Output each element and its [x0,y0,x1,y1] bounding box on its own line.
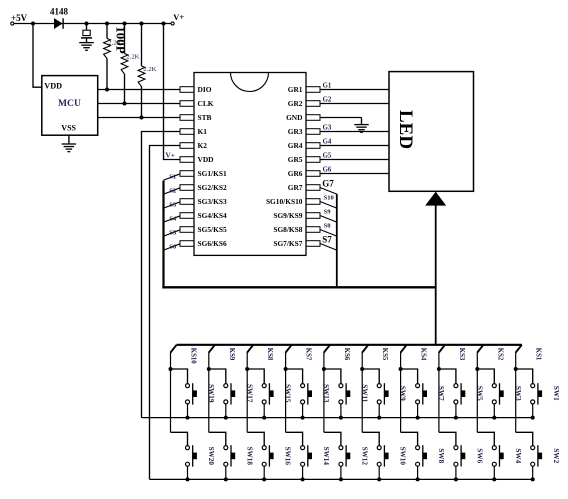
junction dot KS2 [475,367,479,371]
label net KS1 [535,348,542,361]
label net KS6 [343,348,350,361]
pin U1 left CLK [180,99,214,108]
svg-text:G6: G6 [323,166,332,173]
switch SW14 [286,432,312,479]
ground at U1 GND [354,125,369,133]
label net S4 [169,215,177,222]
junction dot R2 tap [123,22,127,26]
junction dot SW4 row2 [492,477,496,481]
svg-text:SW18: SW18 [245,447,253,466]
wire KS8 bus tap [247,345,253,369]
wire slant S7 [320,244,337,251]
wire slant S6 [164,244,181,250]
svg-text:S3: S3 [169,201,177,208]
svg-text:SG8/KS8: SG8/KS8 [273,225,302,234]
wire +5V down to MCU VDD [33,24,42,88]
node V+ terminal [171,13,184,25]
label MCU VDD pin [44,82,62,91]
svg-text:GR5: GR5 [288,155,303,164]
svg-text:KS4: KS4 [420,348,427,361]
label 100P (C1 value) [113,26,128,54]
svg-text:KS3: KS3 [458,348,465,361]
arrow into LED [425,192,446,206]
svg-text:SG9/KS9: SG9/KS9 [273,211,302,220]
wire K1 to keypad row1 [142,132,181,418]
junction dot SW17 row1 [224,416,228,420]
junction dot SW19 row1 [186,416,190,420]
pin U1 left K1 [180,127,207,136]
label net KS4 [420,348,427,361]
svg-text:MCU: MCU [58,98,81,109]
wire KS1 bus tap [516,345,522,369]
wire MCU STB [98,117,180,119]
junction dot SW15 row1 [262,416,266,420]
svg-text:S10: S10 [324,195,335,202]
pin U1 right GR7 [288,183,320,192]
junction dot SW12 row2 [339,477,343,481]
wire KS4 column [400,369,402,432]
junction dot KS1 [514,367,518,371]
junction dot R1 tap [105,22,109,26]
pin U1 right GR5 [288,155,320,164]
wire keypad row1 K1 [142,417,534,419]
svg-text:K2: K2 [198,141,208,150]
junction dot R1-DIO [105,88,109,92]
svg-text:KS1: KS1 [535,348,542,361]
label SW17 [245,384,253,403]
switch SW7 [401,369,427,418]
switch SW11 [324,369,350,418]
svg-text:S5: S5 [169,229,177,236]
label net S2 [169,187,177,194]
pin U1 left SG2/KS2 [180,183,227,192]
switch SW19 [171,369,197,418]
junction dot C1 tap [85,22,89,26]
LED display block [389,72,474,192]
svg-text:G2: G2 [323,96,332,103]
svg-text:S6: S6 [169,243,177,250]
wire slant S5 [164,230,181,236]
junction dot R3 tap [140,22,144,26]
svg-text:VSS: VSS [61,123,76,132]
svg-text:SW10: SW10 [399,447,407,466]
svg-text:S7: S7 [322,235,332,245]
label SW11 [360,384,368,402]
svg-text:VDD: VDD [44,82,62,91]
svg-text:GR2: GR2 [288,99,303,108]
pin U1 left DIO [180,85,212,94]
svg-text:SG4/KS4: SG4/KS4 [198,211,227,220]
svg-text:GR1: GR1 [288,85,303,94]
svg-text:2.2K: 2.2K [143,66,156,73]
junction dot SW1 row1 [531,416,535,420]
switch SW5 [439,369,465,418]
wire KS10 column [170,369,172,432]
wire net G3 [320,131,389,133]
label SW15 [284,384,292,403]
svg-text:KS9: KS9 [228,348,235,361]
svg-text:S1: S1 [169,173,176,180]
switch SW12 [324,432,350,479]
node +5V supply terminal [11,13,28,25]
wire KS9 column [208,369,210,432]
junction dot SW13 row1 [301,416,305,420]
switch SW3 [477,369,503,418]
resistor R2 2.2K [121,24,128,104]
label net G3 [323,124,332,131]
wire KS7 bus tap [286,345,292,369]
svg-text:S8: S8 [324,223,332,230]
svg-text:SW17: SW17 [245,384,253,403]
svg-text:2.2K: 2.2K [108,39,121,46]
svg-text:GR7: GR7 [288,183,303,192]
svg-text:SG3/KS3: SG3/KS3 [198,197,227,206]
svg-text:G4: G4 [323,138,332,145]
svg-text:SW9: SW9 [399,386,407,401]
svg-text:V+: V+ [165,150,175,159]
wire V+ down to U1 VDD pin [164,24,181,160]
switch SW18 [209,432,235,479]
label SW12 [360,447,368,466]
label SW2 [552,448,560,463]
label SW18 [245,447,253,466]
junction dot KS7 [284,367,288,371]
label net G6 [323,166,332,173]
wire slant S2 [164,188,181,194]
wire MCU CLK [98,103,180,105]
svg-text:G3: G3 [323,124,332,131]
label SW5 [475,386,483,401]
label SW7 [437,386,445,401]
wire net G5 [320,159,389,161]
junction dot SW20 row2 [186,477,190,481]
wire slant S4 [164,216,181,222]
label SW19 [207,384,215,403]
svg-text:VDD: VDD [198,155,214,164]
ground below MCU [62,144,77,152]
label net KS9 [228,348,235,361]
pin U1 right GR3 [288,127,320,136]
bus right S7-S10 vertical [336,194,338,286]
label net S10 [324,195,335,202]
switch SW8 [401,432,427,479]
switch SW2 [516,432,542,479]
pin U1 right SG7/KS7 [273,239,320,248]
wire net G2 [320,103,389,105]
wire MCU VSS to ground [68,135,70,144]
label net S8 [324,223,332,230]
wire slant G7 [320,188,337,195]
wire KS7 column [285,369,287,432]
svg-text:KS6: KS6 [343,348,350,361]
junction dot R2-CLK [123,102,127,106]
label MCU [58,98,81,109]
pin U1 right SG9/KS9 [273,211,320,220]
junction dot SW5 row1 [454,416,458,420]
op IC U1 body [194,73,306,256]
label SW8 [437,448,445,463]
svg-text:+5V: +5V [11,13,28,23]
label SW13 [322,384,330,403]
svg-text:SG10/KS10: SG10/KS10 [266,197,303,206]
junction dot SW14 row2 [301,477,305,481]
pin U1 left STB [180,113,212,122]
pin U1 left K2 [180,141,207,150]
junction dot KS4 [399,367,403,371]
switch SW9 [362,369,388,418]
wire U1 GND [320,118,362,125]
junction dot KS9 [207,367,211,371]
wire slant S10 [320,202,337,209]
label net KS8 [266,348,273,361]
label net G5 [323,152,332,159]
label net S6 [169,243,177,250]
svg-text:STB: STB [198,113,212,122]
label SW1 [552,386,560,401]
label net KS10 [190,348,197,364]
pin U1 left SG5/KS5 [180,225,227,234]
switch SW20 [171,432,197,479]
pin U1 right GND [286,113,320,122]
junction dot SW11 row1 [339,416,343,420]
switch SW10 [362,432,388,479]
svg-text:2.2K: 2.2K [126,54,139,61]
wire KS5 bus tap [362,345,368,369]
label SW10 [399,447,407,466]
label net S7 [322,235,332,245]
label net S3 [169,201,177,208]
label net KS3 [458,348,465,361]
wire net G1 [320,89,389,91]
switch SW4 [477,432,503,479]
junction dot KS5 [360,367,364,371]
label net KS7 [305,348,312,361]
svg-text:SW3: SW3 [514,386,522,401]
pin U1 right GR2 [288,99,320,108]
wire KS6 bus tap [324,345,330,369]
svg-text:LED: LED [395,110,416,149]
svg-text:SG1/KS1: SG1/KS1 [198,169,227,178]
junction dot KS8 [245,367,249,371]
svg-text:SG6/KS6: SG6/KS6 [198,239,227,248]
svg-text:SW5: SW5 [475,386,483,401]
svg-text:GR6: GR6 [288,169,303,178]
label net G7 [322,179,334,189]
junction dot R3-STB [140,116,144,120]
switch SW1 [516,369,542,418]
svg-text:SW15: SW15 [284,384,292,403]
label R3 2.2K [143,66,156,73]
svg-text:KS5: KS5 [381,348,388,361]
resistor R1 2.2K [104,24,111,90]
junction dot SW16 row2 [262,477,266,481]
pin U1 left SG1/KS1 [180,169,227,178]
label net G4 [323,138,332,145]
wire KS8 column [246,369,248,432]
svg-text:SW6: SW6 [475,448,483,463]
svg-text:SG2/KS2: SG2/KS2 [198,183,227,192]
label SW4 [514,448,522,463]
svg-text:GND: GND [286,113,302,122]
wire KS6 column [323,369,325,432]
pin U1 right GR1 [288,85,320,94]
label SW9 [399,386,407,401]
junction dot KS10 [169,367,173,371]
capacitor C1 [81,24,92,43]
junction dot V+ drop [162,22,166,26]
bus horizontal S-lines [162,286,436,288]
label SW16 [284,447,292,466]
svg-text:G7: G7 [322,179,334,189]
pin U1 right GR4 [288,141,320,150]
switch SW15 [247,369,273,418]
label V+ at U1 VDD [165,150,175,159]
svg-text:KS7: KS7 [305,348,312,361]
label SW20 [207,447,215,466]
junction dot SW2 row2 [531,477,535,481]
label net KS5 [381,348,388,361]
svg-text:S4: S4 [169,215,177,222]
pin U1 right GR6 [288,169,320,178]
svg-text:SW1: SW1 [552,386,560,401]
svg-text:SW2: SW2 [552,448,560,463]
wire keypad row2 K2 [150,478,534,480]
svg-text:G5: G5 [323,152,332,159]
wire KS3 bus tap [439,345,445,369]
svg-text:SW4: SW4 [514,448,522,463]
bus keypad top [177,344,522,346]
label SW6 [475,448,483,463]
wire KS3 column [438,369,440,432]
diode D 4148 [50,7,69,29]
svg-text:KS2: KS2 [496,348,503,361]
svg-text:S2: S2 [169,187,177,194]
pin U1 left VDD [180,155,214,164]
svg-text:4148: 4148 [50,7,69,17]
wire KS5 column [361,369,363,432]
wire slant S9 [320,216,337,223]
label net G2 [323,96,332,103]
wire arrow vertical to keypad [435,204,437,345]
svg-text:S9: S9 [324,209,332,216]
label net S1 [169,173,176,180]
svg-text:KS10: KS10 [190,348,197,364]
resistor R3 2.2K [138,24,145,118]
bus left S1-S6 vertical [162,181,164,288]
label net S9 [324,209,332,216]
svg-text:SW12: SW12 [360,447,368,466]
wire top +5V rail [14,23,171,25]
junction dot SW10 row2 [377,477,381,481]
label MCU VSS pin [61,123,76,132]
svg-text:GR4: GR4 [288,141,303,150]
label SW14 [322,447,330,466]
svg-text:V+: V+ [173,13,184,22]
pin U1 right SG8/KS8 [273,225,320,234]
junction dot SW8 row2 [416,477,420,481]
label SW3 [514,386,522,401]
junction dot MCU VDD tap [31,22,35,26]
label R2 2.2K [126,54,139,61]
switch SW16 [247,432,273,479]
svg-text:K1: K1 [198,127,208,136]
wire slant S3 [164,202,181,208]
svg-text:SW8: SW8 [437,448,445,463]
wire KS2 bus tap [477,345,483,369]
junction dot SW9 row1 [377,416,381,420]
label net G1 [323,82,332,89]
junction dot SW6 row2 [454,477,458,481]
wire KS2 column [476,369,478,432]
junction dot SW7 row1 [416,416,420,420]
wire KS4 bus tap [401,345,407,369]
junction dot KS6 [322,367,326,371]
svg-text:SW16: SW16 [284,447,292,466]
svg-text:DIO: DIO [198,85,212,94]
pin U1 left SG3/KS3 [180,197,227,206]
label net KS2 [496,348,503,361]
svg-text:SG5/KS5: SG5/KS5 [198,225,227,234]
svg-text:SG7/KS7: SG7/KS7 [273,239,302,248]
junction dot KS3 [437,367,441,371]
svg-text:SW20: SW20 [207,447,215,466]
svg-text:CLK: CLK [198,99,214,108]
wire net G6 [320,173,389,175]
pin U1 left SG6/KS6 [180,239,227,248]
ground below C1 [79,43,94,51]
pin U1 right SG10/KS10 [266,197,320,206]
wire MCU DIO [98,89,180,91]
junction dot SW3 row1 [492,416,496,420]
label LED [395,110,416,149]
pin U1 left SG4/KS4 [180,211,227,220]
svg-text:KS8: KS8 [266,348,273,361]
label R1 2.2K [108,39,121,46]
wire KS9 bus tap [209,345,215,369]
svg-text:SW14: SW14 [322,447,330,466]
switch SW6 [439,432,465,479]
wire net G4 [320,145,389,147]
wire slant S1 [164,174,181,180]
MCU U2 body [42,76,98,136]
switch SW13 [286,369,312,418]
svg-text:GR3: GR3 [288,127,303,136]
wire KS10 bus tap [171,345,177,369]
label net S5 [169,229,177,236]
junction dot SW18 row2 [224,477,228,481]
wire K2 to keypad row2 [150,146,181,480]
switch SW17 [209,369,235,418]
svg-text:G1: G1 [323,82,332,89]
wire slant S8 [320,230,337,237]
wire KS1 column [515,369,517,432]
